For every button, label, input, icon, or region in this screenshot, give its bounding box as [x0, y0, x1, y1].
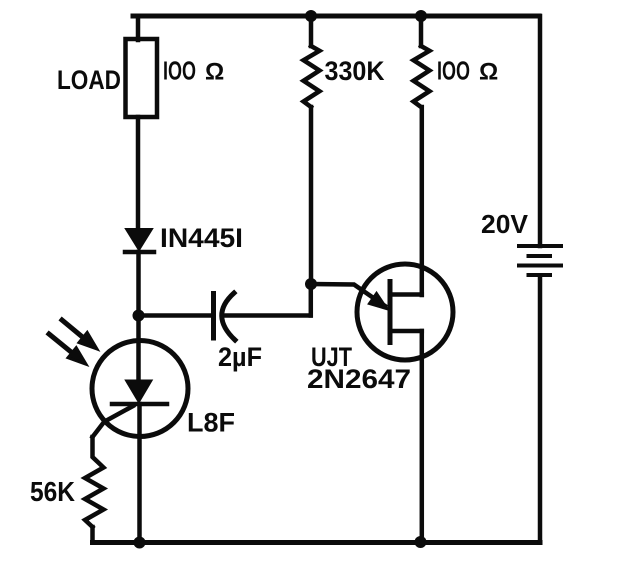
wire 330K to node B	[309, 107, 314, 284]
node B junction dot	[305, 278, 317, 290]
wire diode to node A	[136, 252, 141, 315]
svg-text:330K: 330K	[325, 56, 385, 86]
resistor LOAD 100Ω (box)	[126, 39, 158, 117]
junction dot bottom right	[415, 536, 427, 548]
resistor R4 56K	[85, 437, 104, 527]
wire load resistor to diode	[136, 117, 141, 230]
svg-text:Ω: Ω	[479, 59, 498, 86]
svg-text:L8F: L8F	[187, 408, 235, 438]
junction dot bottom left	[134, 537, 146, 549]
wire 100Ω to UJT base2	[420, 107, 425, 295]
wire top rail to battery	[538, 16, 543, 246]
light arrow 1	[62, 320, 97, 349]
wire stub from top rail to load resistor	[136, 16, 141, 40]
svg-text:IOO: IOO	[437, 56, 470, 86]
wire LASCR gate lead	[93, 406, 134, 437]
wire bottom rail	[93, 540, 541, 545]
LASCR Q1 L8F (light-activated SCR)	[92, 341, 188, 437]
transistor U1 UJT 2N2647	[311, 264, 453, 360]
resistor R3 100Ω	[414, 46, 430, 107]
wire 56K to bottom rail	[90, 527, 95, 543]
svg-text:2µF: 2µF	[218, 342, 262, 372]
svg-text:LOAD: LOAD	[57, 65, 121, 95]
svg-text:56K: 56K	[30, 476, 75, 507]
wire node A into LASCR	[136, 316, 141, 381]
svg-text:20V: 20V	[481, 209, 529, 239]
diode D1 1N4451	[125, 229, 154, 252]
resistor R2 330K	[304, 46, 320, 107]
junction dot top rail at 330K	[305, 10, 317, 22]
battery B1 20V	[519, 246, 561, 275]
wire battery to bottom rail	[538, 277, 543, 543]
node A junction dot	[133, 310, 145, 322]
wire stub top rail to 100Ω	[419, 16, 424, 46]
wire capacitor up to node B	[309, 284, 314, 316]
svg-text:IN445I: IN445I	[160, 223, 243, 253]
wire UJT base1 to bottom rail	[420, 331, 425, 543]
wire top rail	[133, 14, 539, 19]
wire LASCR cathode to bottom rail	[137, 404, 142, 543]
wire stub top rail to 330K	[309, 16, 314, 46]
svg-text:IOO: IOO	[163, 56, 196, 86]
light arrow 2	[49, 334, 86, 364]
capacitor C1 2µF	[141, 293, 311, 340]
svg-text:Ω: Ω	[205, 59, 224, 86]
junction dot top rail at 100Ω	[415, 10, 427, 22]
svg-text:2N2647: 2N2647	[307, 364, 411, 394]
